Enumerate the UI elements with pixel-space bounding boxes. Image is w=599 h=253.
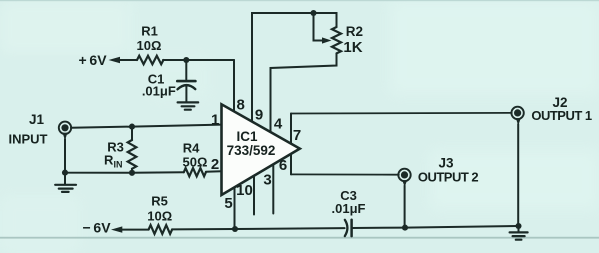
svg-text:IC1: IC1 [236,129,258,144]
svg-text:J3: J3 [438,155,454,170]
svg-text:733/592: 733/592 [227,143,276,158]
svg-text:2: 2 [211,156,219,173]
svg-text:1K: 1K [343,39,362,56]
svg-text:R2: R2 [346,24,363,39]
svg-text:J1: J1 [29,112,45,127]
svg-text:6: 6 [279,157,287,174]
svg-text:1: 1 [211,112,219,129]
svg-text:OUTPUT 2: OUTPUT 2 [418,170,479,185]
svg-text:R1: R1 [141,23,158,38]
svg-text:7: 7 [293,127,301,144]
svg-text:50Ω: 50Ω [183,155,208,170]
svg-text:10Ω: 10Ω [147,209,172,224]
svg-text:R4: R4 [183,141,200,156]
svg-text:9: 9 [255,107,263,124]
svg-text:5: 5 [224,195,232,212]
svg-text:IN: IN [114,159,123,169]
svg-text:− 6V: − 6V [82,220,111,236]
svg-text:R5: R5 [151,194,168,209]
svg-text:INPUT: INPUT [9,132,48,147]
svg-text:R: R [104,153,114,168]
svg-text:OUTPUT 1: OUTPUT 1 [531,108,592,123]
svg-text:10Ω: 10Ω [137,38,162,53]
svg-text:+ 6V: + 6V [78,52,107,68]
svg-text:3: 3 [263,172,271,189]
svg-text:.01μF: .01μF [332,201,366,216]
svg-text:8: 8 [237,97,245,114]
svg-text:.01μF: .01μF [142,83,176,98]
svg-text:4: 4 [274,116,283,133]
svg-text:10: 10 [236,182,253,199]
